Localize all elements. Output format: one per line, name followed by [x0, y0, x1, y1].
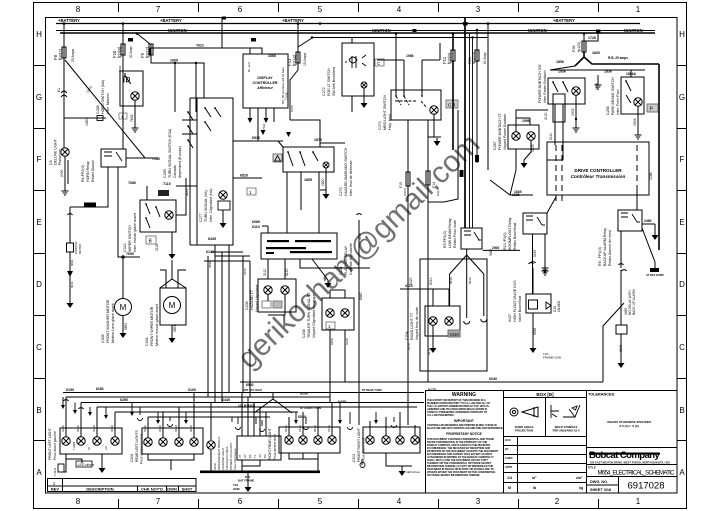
fuse F13: [296, 52, 300, 63]
svg-text:E1: E1: [57, 88, 61, 92]
svg-text:Feux arriere droit: Feux arriere droit: [273, 434, 277, 460]
svg-text:2110: 2110: [243, 268, 247, 275]
svg-text:Inter. Maseni: Inter. Maseni: [106, 93, 110, 114]
wire 1450 branch: [64, 117, 97, 119]
junction dots buses: [128, 17, 601, 42]
svg-text:0016: 0016: [468, 277, 472, 284]
svg-text:Inter. essuie glace avant: Inter. essuie glace avant: [133, 213, 137, 252]
wire bus y412: [115, 411, 298, 413]
C277 enclosure box: [197, 98, 233, 245]
connector pin box: [237, 436, 281, 460]
label backup right column: [595, 83, 599, 90]
svg-text:B: B: [679, 406, 684, 415]
wire hazard TT grounds: [268, 294, 285, 315]
wire cluster3 bottom: [289, 453, 318, 472]
wire 6520: [233, 177, 262, 179]
wire 8440 trunk: [357, 214, 362, 425]
svg-text:dependent (Europe): dependent (Europe): [178, 146, 182, 178]
svg-text:GND: GND: [233, 487, 241, 491]
svg-text:HAZARD-WARNING SWITCH: HAZARD-WARNING SWITCH: [344, 147, 348, 196]
wire display down pins: [250, 108, 274, 122]
wire F23 extend: [476, 110, 478, 163]
wire 1825 link: [510, 149, 516, 195]
svg-text:GN: GN: [258, 454, 262, 458]
label C289 TURN SIGNAL SWITCH (E3A): [163, 129, 182, 178]
wire 3110: [400, 289, 449, 306]
svg-text:C289: C289: [163, 169, 167, 178]
svg-text:FOG LT SWITCH: FOG LT SWITCH: [327, 68, 331, 96]
ground R9: [652, 232, 659, 240]
svg-text:6: 6: [238, 497, 243, 506]
svg-text:F28: F28: [572, 45, 576, 52]
svg-text:Inter. Frein Parc: Inter. Frein Parc: [616, 89, 620, 115]
svg-text:C272: C272: [322, 87, 326, 96]
svg-text:FRONT WIPER MOTOR: FRONT WIPER MOTOR: [150, 306, 154, 346]
svg-text:7: 7: [156, 497, 161, 506]
label 0437 HIGH FLOAT VALVE DVS: [508, 280, 522, 322]
svg-text:F: F: [680, 155, 685, 164]
svg-text:1066: 1066: [406, 54, 414, 58]
svg-text:6040: 6040: [489, 377, 497, 381]
label POWER BOBTACH SWITCH: [538, 64, 547, 103]
svg-text:6430: 6430: [298, 425, 302, 432]
wire 1609 vertical 175: [174, 63, 176, 112]
label D10 1N4002: [553, 301, 561, 312]
svg-text:kg: kg: [579, 486, 583, 490]
boxed icon trailer TT: [326, 322, 335, 329]
wiper motor C301: [164, 297, 181, 314]
svg-text:1: 1: [636, 5, 641, 14]
svg-text:WARNING: WARNING: [452, 392, 476, 398]
label C342 WIPER SWITCH: [123, 213, 137, 252]
fuse F23: [475, 50, 479, 61]
big enclosure box: [420, 259, 487, 371]
svg-text:0410: 0410: [358, 233, 362, 240]
svg-text:6917028: 6917028: [628, 481, 665, 492]
svg-text:7680: 7680: [128, 181, 136, 185]
svg-text:TITLE: TITLE: [588, 466, 596, 470]
svg-text:Feux avant gauche: Feux avant gauche: [53, 431, 57, 460]
svg-text:Relais Klaxon: Relais Klaxon: [91, 160, 95, 182]
svg-text:C302: C302: [352, 454, 356, 462]
svg-text:0437: 0437: [508, 314, 512, 322]
svg-text:7621: 7621: [196, 44, 204, 48]
wire valve feed: [532, 268, 534, 294]
wire left branch 1856: [550, 66, 645, 70]
svg-text:+BATTERY: +BATTERY: [553, 18, 575, 23]
connector arrow left chain: [67, 271, 73, 277]
svg-text:B: B: [36, 406, 41, 415]
svg-text:A: A: [36, 468, 42, 477]
wiper switch contacts: [146, 204, 160, 228]
wire F10 down: [122, 24, 124, 150]
hazard switch C270 box: [283, 147, 334, 172]
svg-text:0546: 0546: [533, 328, 537, 335]
wire park brake ground: [637, 106, 639, 132]
svg-text:PROPRIETARY NOTICE: PROPRIETARY NOTICE: [446, 432, 482, 436]
svg-text:1/4: 1/4: [507, 476, 512, 480]
svg-text:6150: 6150: [66, 388, 74, 392]
svg-text:G: G: [36, 93, 42, 102]
heavy wire bar: [200, 471, 320, 474]
svg-text:IGNITION: IGNITION: [372, 28, 391, 33]
svg-text:E: E: [679, 218, 684, 227]
svg-text:0435: 0435: [533, 250, 537, 257]
svg-text:6080: 6080: [252, 220, 260, 224]
hazard TT box: [258, 279, 296, 312]
svg-text:15 Amps: 15 Amps: [303, 53, 307, 66]
wire connector box bottom: [242, 460, 260, 472]
svg-text:Voyant clignotant: Voyant clignotant: [255, 285, 259, 312]
svg-text:6170: 6170: [407, 343, 411, 350]
wire F9 down then right: [137, 34, 196, 64]
connector hook c1: [64, 400, 84, 409]
wire washer ground: [122, 316, 124, 330]
park brake lamp: [634, 98, 642, 106]
wire F28 down split: [575, 52, 659, 250]
svg-text:HORN SWITCH (NA): HORN SWITCH (NA): [101, 80, 105, 114]
svg-text:FRAME GND: FRAME GND: [543, 356, 562, 360]
svg-text:GY: GY: [243, 454, 247, 458]
wire +BATTERY bus: [56, 23, 640, 25]
svg-text:C206: C206: [245, 301, 249, 310]
svg-text:Valve Boomfloat: Valve Boomfloat: [518, 296, 522, 322]
svg-text:0906: 0906: [633, 118, 637, 126]
fuse F10: [121, 44, 125, 55]
svg-text:YL: YL: [253, 454, 257, 458]
light switch C273 box: [391, 90, 441, 120]
label C302 FRONT RIGHT LIGHT: [352, 428, 366, 462]
fuse F11: [451, 50, 455, 61]
svg-text:Canada: Canada: [173, 165, 177, 178]
small box below bobtach: [553, 94, 565, 122]
tolerances body: [607, 420, 652, 428]
third angle projection symbol: [510, 407, 538, 417]
wire cluster2 feeds: [148, 393, 194, 439]
label R13 rP1(0) BOOMFLOAT Relay: [503, 217, 517, 250]
svg-text:+BATTERY: +BATTERY: [282, 18, 304, 23]
wire cluster4 feeds: [370, 412, 415, 436]
label WINDOW rotated: [74, 241, 82, 254]
wire R5 connections: [450, 249, 520, 318]
svg-text:Voyant Clignotant remorque: Voyant Clignotant remorque: [312, 293, 316, 338]
label C288 HORN SWITCH (NA): [96, 80, 110, 114]
hazard lamp: [323, 162, 329, 168]
valve 0437 box: [526, 294, 551, 313]
svg-text:6435: 6435: [208, 237, 216, 241]
svg-text:C277: C277: [199, 213, 203, 222]
svg-text:25 Amps: 25 Amps: [71, 49, 75, 62]
svg-text:FRONT WASHER MOTOR: FRONT WASHER MOTOR: [106, 299, 110, 343]
wire 7621 vertical: [222, 18, 250, 55]
label +BATTERY x4: [58, 18, 575, 23]
wire park brake feed: [630, 70, 632, 77]
svg-text:2110: 2110: [263, 269, 267, 276]
svg-text:6350: 6350: [92, 425, 96, 432]
svg-text:6330: 6330: [327, 425, 331, 432]
fuse F15 inline: [406, 172, 410, 186]
horn glyph: [124, 77, 130, 83]
svg-text:6450: 6450: [110, 425, 114, 432]
connector dark 458: [460, 170, 464, 177]
wire bus y397: [66, 396, 330, 398]
svg-text:Inter Power Bobtach: Inter Power Bobtach: [543, 70, 547, 103]
svg-text:1006: 1006: [285, 92, 289, 100]
label 2485 rotated: [624, 289, 636, 315]
svg-text:A: A: [679, 468, 685, 477]
horn switch contact: [125, 73, 131, 84]
label cluster2 wire tags: [143, 425, 193, 432]
svg-text:C8: C8: [49, 160, 53, 165]
svg-text:F15: F15: [399, 182, 403, 188]
svg-text:BAT FRAME: BAT FRAME: [238, 479, 254, 483]
svg-text:PER ANSI/AWS A2.4: PER ANSI/AWS A2.4: [553, 429, 580, 433]
wire 6191 drop: [147, 178, 186, 215]
svg-text:1870: 1870: [314, 138, 322, 142]
svg-text:3: 3: [476, 5, 481, 14]
label R5-FP2(C) LOW BEAM Relay: [443, 218, 457, 248]
ground left chain: [67, 300, 74, 308]
svg-text:cm²: cm²: [576, 476, 583, 480]
svg-text:Moteur essuie-glace avant: Moteur essuie-glace avant: [155, 304, 159, 346]
svg-text:TURN SIGNAL (9A): TURN SIGNAL (9A): [204, 190, 208, 222]
svg-text:4: 4: [397, 5, 402, 14]
connector hook left chain: [68, 214, 73, 215]
svg-text:Voyant feux de route: Voyant feux de route: [415, 307, 419, 340]
wire F8 down: [63, 24, 65, 149]
ground cluster1: [99, 465, 106, 473]
svg-text:C204: C204: [405, 331, 409, 340]
trailer TT box: [322, 298, 354, 330]
svg-text:8: 8: [76, 5, 81, 14]
svg-text:IGNITION: IGNITION: [168, 28, 187, 33]
svg-text:C: C: [36, 343, 42, 352]
wire cluster1 feeds: [66, 397, 115, 437]
svg-text:6120: 6120: [285, 268, 289, 276]
arrow connectors top: [261, 130, 292, 137]
wire bobtach TT ground: [524, 140, 531, 160]
hook connectors under R5: [464, 319, 487, 324]
svg-text:Inter. feux de détresse: Inter. feux de détresse: [349, 160, 353, 196]
power bobtach lamp: [572, 87, 580, 95]
wire cluster2 bottom: [148, 454, 194, 470]
warning triangle icon: [273, 154, 282, 162]
svg-text:8440: 8440: [359, 292, 363, 300]
boxed icon 0430: [448, 330, 460, 337]
svg-text:2: 2: [555, 497, 560, 506]
svg-text:Inter. Clignotant (NA): Inter. Clignotant (NA): [209, 188, 213, 222]
svg-text:1830: 1830: [592, 51, 600, 55]
label R9 - FP1(0) BACKUP ALARM Relay: [598, 228, 612, 266]
svg-text:6040: 6040: [189, 425, 193, 432]
wire IGNITION bus upper: [56, 30, 655, 32]
svg-text:IGNITION: IGNITION: [624, 28, 643, 33]
wire flasher bottoms: [268, 259, 370, 280]
svg-text:C273: C273: [378, 121, 382, 130]
label F13 fp1(4): [287, 54, 297, 66]
svg-text:LO: LO: [104, 445, 108, 450]
drive controller pin hatch right: [636, 145, 638, 201]
label C277 TURN SIGNAL (NA): [199, 188, 213, 222]
wire C273 lamp ground: [428, 114, 441, 137]
watermark gerikocham@gmail.com: [232, 128, 487, 376]
svg-text:OR TRADE SECRET INFORMATION TH: OR TRADE SECRET INFORMATION THEREIN.: [427, 473, 480, 477]
hooks on bundle: [138, 418, 397, 432]
svg-text:R6-FP2(0): R6-FP2(0): [81, 165, 85, 182]
label 6050 wire tags: [61, 425, 114, 432]
svg-text:F14: F14: [432, 182, 436, 188]
label R1F BAT FRAME: [238, 475, 254, 483]
wire horn down: [134, 100, 136, 125]
svg-text:7631: 7631: [262, 123, 266, 130]
label cluster3 wire tags: [284, 425, 331, 432]
svg-text:fp1(2): fp1(2): [145, 46, 150, 58]
grid ticks right: [677, 66, 687, 441]
ground below horn: [132, 125, 139, 132]
label C8 DELUXE LIGHT: [49, 138, 62, 165]
svg-text:C: C: [679, 343, 685, 352]
wire backup alarm ground: [620, 334, 622, 360]
bobtach TT lamps: [512, 132, 520, 140]
svg-text:BACKUP ALARM Relay: BACKUP ALARM Relay: [603, 228, 607, 266]
C277 lamp: [219, 191, 227, 199]
lamp C8 deluxe light: [61, 148, 69, 156]
svg-text:fp1(4): fp1(4): [292, 54, 297, 66]
svg-text:Feux arriere gauche: Feux arriere gauche: [140, 434, 144, 464]
hazard TT lamps: [264, 286, 272, 294]
svg-text:6060: 6060: [246, 383, 254, 387]
wire diagonal GRY: [65, 60, 145, 158]
fog switch glyph: [345, 55, 366, 68]
svg-text:R5-FP2(C): R5-FP2(C): [443, 231, 447, 248]
wire cluster3 feeds: [289, 403, 332, 437]
wire display pin to 6510: [257, 122, 259, 141]
component box left chain: [67, 243, 74, 252]
wire trailer TT tops: [330, 290, 345, 298]
svg-text:CHKD: CHKD: [505, 456, 513, 460]
svg-text:Plafonnier: Plafonnier: [58, 148, 62, 165]
svg-text:CONTROLLER: CONTROLLER: [253, 81, 278, 85]
wire fog bottom stub: [351, 96, 353, 112]
ground cluster4: [399, 468, 406, 476]
svg-text:HORN Relay: HORN Relay: [86, 161, 90, 182]
svg-text:1N4002: 1N4002: [557, 301, 561, 312]
label HD LED boxed: [76, 461, 92, 467]
C289 contacts: [188, 112, 193, 148]
svg-text:6270: 6270: [427, 348, 431, 355]
hazard contacts: [288, 152, 318, 166]
boxed icon P: [647, 104, 658, 112]
drive controller pin hatch left: [556, 145, 562, 201]
svg-text:SHST: SHST: [182, 487, 193, 492]
svg-text:TURN: TURN: [72, 442, 76, 450]
svg-text:6030: 6030: [298, 415, 306, 419]
svg-text:0820: 0820: [321, 178, 325, 186]
wire hazard lamp ground: [325, 168, 327, 191]
svg-text:6230: 6230: [300, 392, 308, 396]
svg-text:0805: 0805: [531, 144, 535, 152]
park brake contacts: [626, 81, 631, 103]
svg-text:Feux avant droit: Feux avant droit: [362, 438, 366, 462]
svg-text:6330: 6330: [345, 338, 349, 345]
wire cluster1 bottom: [61, 454, 102, 472]
svg-text:HIGH FLOAT VALVE DVS: HIGH FLOAT VALVE DVS: [513, 280, 517, 322]
svg-text:DWG. NO.: DWG. NO.: [590, 480, 608, 484]
bus stub arrows: [63, 397, 394, 426]
wire R13 ground: [542, 265, 549, 272]
svg-text:2480: 2480: [644, 219, 652, 223]
wire hazard drops: [287, 172, 319, 233]
svg-text:Contrôleur Transmission: Contrôleur Transmission: [571, 174, 626, 179]
ground T10: [245, 484, 252, 492]
svg-text:C288: C288: [606, 106, 610, 115]
wire C289 to C277 links: [176, 120, 197, 186]
label C305 FRONT WASHER MOTOR: [101, 299, 115, 343]
label RIGHT REAR LIGHT col: [268, 428, 277, 460]
svg-text:0652: 0652: [124, 323, 128, 330]
svg-text:7: 7: [156, 5, 161, 14]
boomfloat relay R13 box: [523, 213, 547, 234]
svg-text:60 Amp: 60 Amp: [483, 52, 487, 64]
horn switch C288 box: [120, 71, 143, 106]
svg-text:FRONT LEFT LIGHT: FRONT LEFT LIGHT: [48, 428, 52, 460]
svg-text:6520: 6520: [240, 174, 248, 178]
grid letters right: [679, 30, 685, 477]
fog light switch C272 box: [342, 43, 374, 96]
label T2A FRAME GND: [543, 352, 562, 360]
svg-text:30 Amp: 30 Amp: [129, 46, 133, 58]
svg-text:E: E: [36, 218, 41, 227]
wire backup down: [619, 264, 625, 325]
svg-text:1856: 1856: [556, 60, 564, 64]
svg-text:ROT KEY HIGH: ROT KEY HIGH: [243, 388, 262, 392]
svg-text:2090: 2090: [60, 169, 64, 177]
svg-text:Afficheur: Afficheur: [256, 86, 273, 90]
trailer TT lamps: [326, 309, 334, 317]
wire trailer TT down: [330, 330, 345, 403]
svg-text:U.S. LAW PROHIBITED.: U.S. LAW PROHIBITED.: [427, 413, 454, 417]
svg-text:H: H: [679, 30, 685, 39]
svg-text:AT REV DUMP: AT REV DUMP: [646, 273, 664, 277]
svg-text:1835: 1835: [514, 190, 522, 194]
svg-text:7652: 7652: [130, 114, 134, 122]
wire R9 feeds: [621, 190, 655, 270]
C277 small box under lamp: [218, 201, 230, 210]
svg-text:RIGHT REAR LIGHT: RIGHT REAR LIGHT: [268, 428, 272, 460]
drive controller box: [547, 142, 649, 195]
label C204 ROAD LIGHT TT: [405, 307, 419, 340]
grid numbers bottom: [76, 497, 641, 506]
svg-text:1666: 1666: [290, 105, 294, 112]
backup alarm relay R9 box: [618, 210, 642, 231]
wire cluster4 bottom: [386, 453, 412, 468]
svg-text:SW Anti Brouillard: SW Anti Brouillard: [332, 67, 336, 96]
label IGNITION x4: [168, 28, 643, 33]
svg-text:Centrale clignotante: Centrale clignotante: [349, 243, 353, 275]
boxed icon below horn: [119, 113, 127, 119]
svg-text:C d: C d: [448, 103, 456, 108]
C289 enclosure edge: [190, 98, 197, 245]
ground mid right: [544, 250, 546, 268]
svg-text:ECO: ECO: [505, 438, 511, 442]
svg-text:Hwy. Haul: Hwy. Haul: [388, 114, 392, 130]
C277 top contacts: [205, 108, 221, 131]
svg-text:2130: 2130: [544, 112, 548, 120]
svg-text:PROJECTION: PROJECTION: [515, 429, 533, 433]
svg-text:fp2(9): fp2(9): [447, 52, 452, 64]
svg-text:R.B. 25 amps: R.B. 25 amps: [608, 56, 628, 60]
grid letters left: [36, 30, 42, 477]
